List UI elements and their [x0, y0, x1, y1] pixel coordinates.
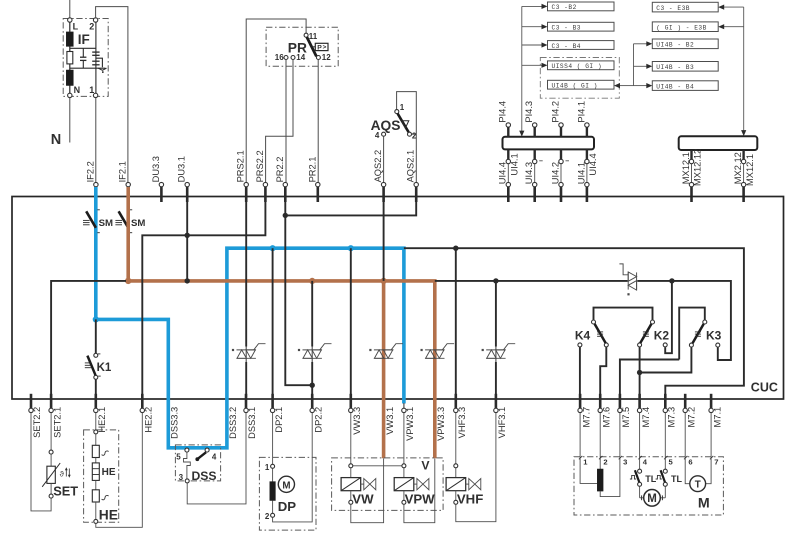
svg-text:PR2.2: PR2.2: [275, 157, 285, 183]
wire stub to UI4B - B4: [634, 83, 653, 88]
wire UI4B(GI) link: [614, 83, 634, 88]
wire feeder middle column: [633, 44, 635, 86]
DSS label: [192, 469, 217, 483]
wire IF internal bottom rail: [70, 67, 106, 69]
DSS pin 4: [205, 448, 217, 462]
svg-text:M7.3: M7.3: [667, 407, 677, 428]
wire mains L supply: [69, 0, 71, 18]
junction blue DP2.1: [270, 245, 276, 251]
triac on DP2.2 line: [298, 344, 332, 359]
wire neutral N below IF: [69, 98, 71, 143]
wire SET2.2 loop: [31, 413, 51, 511]
svg-text:UI4.4: UI4.4: [498, 162, 508, 184]
svg-text:IF2.2: IF2.2: [85, 161, 95, 182]
svg-text:SM: SM: [99, 218, 113, 229]
pin IF2.2: [85, 161, 98, 202]
svg-text:M7.5: M7.5: [621, 407, 631, 428]
reference box C3 - B4: [548, 41, 615, 50]
inductor coil L2 of IF: [66, 64, 73, 93]
junction brown VW3.1: [381, 278, 387, 284]
svg-text:UI4B - B4: UI4B - B4: [656, 83, 694, 90]
svg-text:7: 7: [714, 458, 718, 467]
motor winding coil: [597, 459, 603, 492]
wire K1 to HE2.1: [95, 379, 97, 397]
pin M7.4: [637, 394, 650, 428]
pin PR2.1: [307, 157, 320, 202]
svg-text:VPW: VPW: [405, 492, 436, 507]
wire stub to C3 - E3B: [718, 5, 744, 10]
AQS switch lever: [398, 114, 409, 133]
motor symbol M of DP: [278, 476, 294, 492]
wire M7 lead pin 2: [599, 413, 608, 467]
SET label: [53, 483, 78, 498]
svg-text:M7.7: M7.7: [581, 407, 591, 428]
IF pin 1: [89, 85, 98, 98]
triac in net B line: [619, 264, 636, 296]
svg-text:SET: SET: [53, 483, 78, 498]
pin DP2.2: [310, 394, 323, 433]
svg-text:2: 2: [412, 131, 417, 140]
wire VW-VPW link: [353, 465, 402, 467]
svg-text:C3 - B3: C3 - B3: [552, 25, 582, 32]
wire DP2.1 drop: [272, 248, 274, 397]
thermal switch TL right: [656, 459, 683, 487]
svg-text:VW: VW: [352, 492, 374, 507]
M label: [698, 496, 710, 512]
svg-text:C3 -B2: C3 -B2: [552, 4, 577, 11]
pin DSS3.2 label: [228, 407, 238, 439]
wire stub to UI4B - B2: [634, 41, 653, 46]
pin UI4.1 lower: [576, 149, 598, 184]
wire M7 lead pin 6: [684, 413, 693, 467]
svg-text:PI4.2: PI4.2: [550, 101, 560, 123]
pin DSS3.1: [244, 394, 257, 439]
pin VHF3.3: [454, 394, 467, 439]
DP pin 1: [265, 463, 275, 472]
svg-text:IF2.1: IF2.1: [118, 161, 128, 182]
wire IF right branch: [95, 22, 97, 93]
wire DP2.1 lead: [272, 413, 274, 465]
svg-text:16: 16: [275, 53, 284, 62]
AQS pin 1: [395, 103, 405, 113]
svg-text:DP2.2: DP2.2: [313, 407, 323, 433]
wire HE link 1: [95, 458, 97, 463]
wire VW return to VW3.1: [351, 458, 384, 522]
wire VHF3.3 drop: [455, 248, 457, 397]
pressure sensor symbol P>: [312, 43, 329, 51]
svg-text:MX12.12: MX12.12: [693, 149, 703, 186]
pin UI4.4 lower: [498, 149, 520, 184]
resistor R1 of IF: [67, 46, 73, 64]
svg-text:M: M: [282, 480, 290, 491]
svg-text:DU3.1: DU3.1: [177, 156, 187, 182]
svg-text:P: P: [317, 44, 322, 51]
svg-text:N: N: [51, 132, 61, 148]
pin UI4.3 CUC entry: [533, 182, 537, 202]
svg-text:K4: K4: [575, 328, 591, 342]
svg-text:>: >: [323, 44, 327, 51]
pin UI4.1 CUC entry: [585, 182, 589, 202]
wire VPW return to VPW3.3: [404, 458, 435, 522]
wire DU3.1 drop: [186, 197, 188, 281]
reference box C3 -B2: [548, 2, 615, 11]
heater element segment 2: [92, 490, 108, 502]
svg-text:VPW3.1: VPW3.1: [405, 407, 415, 441]
arrow into MX12 connector: [741, 130, 746, 136]
svg-text:UI4B - B3: UI4B - B3: [656, 64, 694, 71]
wire brown net IF2.1 to VPW3.3: [128, 187, 435, 458]
wire VHF3.3 lead: [455, 413, 457, 464]
svg-text:UI4.1: UI4.1: [576, 162, 586, 184]
inductor coil L1 of IF: [66, 22, 73, 46]
PR pin 12: [316, 53, 331, 62]
svg-text:4: 4: [212, 453, 217, 462]
svg-text:MX2.12: MX2.12: [733, 152, 743, 184]
svg-text:C3 - B4: C3 - B4: [552, 43, 582, 50]
svg-text:5: 5: [176, 453, 181, 462]
triac on DSS3.1 line: [232, 344, 266, 359]
svg-text:5: 5: [669, 458, 674, 467]
svg-text:V: V: [421, 459, 430, 473]
wire VW3.3 drop: [350, 248, 352, 397]
DSS program cam: [184, 452, 191, 479]
pin PI4.1: [576, 101, 589, 137]
motor unit M enclosure: [574, 457, 723, 515]
pin VW3.1 label: [385, 407, 395, 435]
wire stub to ( GI ) - E3B: [718, 24, 744, 29]
IF pin 2: [89, 18, 98, 32]
svg-text:PR2.1: PR2.1: [307, 157, 317, 183]
pin SET sensor bottom: [49, 494, 53, 498]
valve VHF: [446, 464, 483, 507]
svg-text:HE2.1: HE2.1: [97, 407, 107, 433]
connector PI4 body: [503, 137, 595, 150]
PR label: [288, 40, 307, 55]
reference box ( GI ) - E3B: [652, 22, 718, 32]
svg-text:VHF: VHF: [457, 492, 483, 507]
pin M7.3: [663, 394, 676, 428]
pin K3 left contact: [689, 343, 693, 347]
svg-text:CUC: CUC: [751, 380, 778, 394]
wire brown drop VW3.1: [382, 281, 386, 458]
pressure switch PR enclosure: [266, 27, 338, 66]
svg-text:PRS2.2: PRS2.2: [255, 150, 265, 182]
arrow into PI4 connector: [519, 131, 524, 137]
svg-text:DP: DP: [278, 499, 297, 514]
svg-text:VPW3.3: VPW3.3: [436, 407, 446, 441]
AQS paddle symbol: [402, 121, 409, 129]
svg-text:DP2.1: DP2.1: [274, 407, 284, 433]
svg-text:C3 - E3B: C3 - E3B: [656, 5, 690, 12]
pin VPW3.1: [402, 403, 415, 441]
wire AQS2.1 to PR2.2 link: [285, 197, 416, 215]
wire stub to UISS4: [522, 63, 548, 68]
valve group V enclosure: [332, 458, 444, 511]
pin HE bottom: [94, 519, 98, 523]
svg-text:VHF3.3: VHF3.3: [457, 407, 467, 439]
wire blue net IF2.2 to DSS3.3/DSS3.2 to VPW3.1: [96, 187, 404, 448]
junction DU3.1 neutral rail: [185, 233, 190, 238]
svg-text:HE: HE: [102, 467, 116, 478]
junction DU3.1 brown rail: [185, 278, 190, 283]
junction brown IF2.1: [125, 278, 131, 284]
heater element segment 1: [92, 445, 108, 457]
svg-text:UI4.3: UI4.3: [524, 162, 534, 184]
aqua sensor AQS bracket wire: [397, 92, 417, 183]
wire PRS2.2 to HE2.2: [142, 197, 265, 397]
svg-text:SET2.1: SET2.1: [52, 407, 62, 438]
wire K2 right pin riser: [665, 281, 672, 353]
wire VPW3.1 lead: [403, 413, 405, 464]
pin M7.7: [578, 394, 591, 428]
svg-text:DSS3.1: DSS3.1: [247, 407, 257, 439]
node N label: [51, 132, 61, 148]
pin HE2.2: [140, 394, 153, 433]
svg-text:K1: K1: [97, 362, 112, 374]
wire HE inner top: [95, 434, 97, 445]
svg-text:M7.6: M7.6: [601, 407, 611, 428]
wire blue corner to K1: [95, 319, 97, 353]
wire DP2.2 drop: [311, 281, 313, 397]
svg-text:PRS2.1: PRS2.1: [236, 150, 246, 182]
pin DU3.3: [151, 156, 164, 202]
pin SET sensor top: [49, 450, 53, 454]
wire SET2.1 lead: [50, 413, 52, 450]
reference box C3 - B3: [548, 22, 615, 31]
svg-text:DSS: DSS: [192, 469, 217, 483]
reference box UI4B - B3: [652, 62, 718, 72]
wire PR2.2 drop: [285, 197, 312, 385]
relay contact K2: [638, 320, 670, 347]
junction K2 riser: [669, 278, 674, 283]
wire net A black extension: [404, 248, 744, 397]
relay contact K1: [85, 353, 112, 379]
svg-text:K2: K2: [654, 328, 670, 342]
pin M7.1: [709, 394, 722, 428]
wire HE inner bottom: [95, 502, 97, 519]
pin SET2.2: [29, 394, 42, 438]
reference box UI4B - B4: [652, 81, 718, 91]
wire K2 node to K3 contact: [640, 347, 692, 372]
svg-text:M: M: [698, 496, 710, 512]
wire M7 lead pin 7: [710, 413, 719, 467]
pin M7.2: [683, 394, 696, 428]
interference filter IF enclosure: [63, 19, 108, 97]
junction AQS2.1 PR2.2: [283, 213, 288, 218]
wire K4 contact to M7.6: [600, 347, 606, 397]
tachometer T symbol: [685, 459, 711, 492]
pin AQS2.2: [373, 150, 386, 202]
svg-text:TL: TL: [645, 474, 656, 484]
capacitor C1 of IF: [80, 48, 86, 68]
wire stub to C3 - B4: [522, 42, 548, 47]
pin MX12.1 CUC entry: [689, 182, 693, 202]
pin M7.6: [598, 394, 611, 428]
wire PR pin14 to PRS2.2: [266, 60, 293, 183]
svg-text:3: 3: [179, 473, 184, 482]
reference box UI4B ( GI ): [548, 80, 615, 89]
heater HE enclosure: [84, 430, 119, 522]
wire VHF return to VHF3.1: [456, 413, 496, 522]
svg-text:UI4.1: UI4.1: [510, 153, 520, 175]
wire stub to C3 - B3: [522, 24, 548, 29]
temperature sensor SET body: [42, 454, 70, 494]
pin M7.5: [618, 394, 631, 428]
svg-text:M7.2: M7.2: [686, 407, 696, 428]
svg-text:M7.1: M7.1: [712, 407, 722, 428]
svg-text:PI4.3: PI4.3: [524, 101, 534, 123]
junction blue corner: [93, 316, 99, 322]
wire M coil to pin3: [600, 459, 620, 497]
svg-text:T: T: [695, 480, 701, 491]
wire net B black extension right: [637, 281, 731, 360]
pin PI4.4: [498, 101, 511, 137]
pin UI4.3 lower: [524, 149, 543, 184]
svg-text:6: 6: [688, 458, 692, 467]
svg-text:1: 1: [400, 103, 405, 112]
PR pin 11: [304, 32, 318, 41]
svg-text:2: 2: [89, 22, 94, 32]
wire feeder left column: [521, 6, 523, 133]
IF label: [78, 32, 90, 47]
svg-text:L: L: [73, 22, 79, 32]
pin IF2.1: [118, 161, 131, 202]
svg-text:VW3.3: VW3.3: [352, 407, 362, 435]
pin K2 right contact: [663, 343, 667, 347]
thermal switch TL left: [630, 459, 657, 487]
wire net B black extension left: [435, 280, 628, 282]
junction PR2.2 DP2.2: [310, 383, 315, 388]
svg-text:1: 1: [583, 458, 588, 467]
svg-text:DSS3.2: DSS3.2: [228, 407, 238, 439]
pin VPW3.3 label: [436, 407, 446, 441]
pin HE top: [94, 430, 98, 434]
svg-text:DU3.3: DU3.3: [151, 156, 161, 182]
door switch DSS enclosure: [175, 445, 220, 481]
wire IF pin1 to IF2.2: [95, 98, 97, 183]
connector MX12 body: [679, 136, 758, 150]
svg-text:2: 2: [265, 512, 270, 521]
ground chassis of IF: [96, 58, 107, 73]
junction brown DP2.2: [309, 278, 315, 284]
DSS pin 3: [179, 473, 190, 483]
svg-text:11: 11: [309, 32, 318, 41]
pin DU3.1: [177, 156, 190, 202]
triac on VPW3.3 line: [421, 344, 455, 359]
wire IF pin2 to IF2.1 over-route: [96, 7, 128, 183]
wire K2 contact to M7.4: [639, 347, 641, 397]
relay contact K3: [693, 320, 722, 343]
svg-text:HE: HE: [99, 508, 118, 523]
svg-text:M7.4: M7.4: [641, 407, 651, 428]
pin PI4.2: [550, 101, 563, 137]
wire HE link 2: [95, 480, 97, 489]
svg-text:HE2.2: HE2.2: [144, 407, 154, 433]
wire PRS2.1 riser to PR pin 11: [246, 19, 306, 182]
svg-text:SM: SM: [131, 218, 145, 229]
svg-text:TL: TL: [671, 474, 682, 484]
switch SM on brown wire: [115, 210, 145, 233]
pin K3 right contact: [716, 343, 720, 347]
pin DSS3.3 label: [170, 407, 180, 439]
svg-text:12: 12: [322, 53, 331, 62]
wire DP2.2 return: [273, 413, 313, 522]
wire arch K3: [679, 308, 705, 360]
wire IF internal top rail: [70, 47, 96, 49]
junction K2 contact node: [637, 370, 642, 375]
svg-text:4: 4: [375, 131, 380, 140]
pin PR2.2: [275, 157, 288, 202]
IF pin N: [68, 85, 80, 98]
CUC label: [751, 380, 778, 394]
svg-text:VW3.1: VW3.1: [385, 407, 395, 435]
wire stub to UI4B - B3: [634, 64, 653, 69]
pump winding coil DP: [270, 469, 276, 514]
svg-text:AQS2.2: AQS2.2: [373, 150, 383, 183]
wire stub to C3 -B2: [522, 4, 548, 9]
reference box UISS4 ( GI ): [548, 61, 615, 70]
wire AQS2.2 drop: [383, 197, 385, 281]
wire PRS2.1 to DSS3.1: [245, 197, 247, 397]
pin UI4.2 CUC entry: [559, 182, 563, 202]
controller CUC box: [12, 197, 784, 400]
svg-text:MX12.1: MX12.1: [745, 154, 755, 186]
AQS pin 2: [408, 131, 417, 140]
svg-text:UI4.4: UI4.4: [588, 153, 598, 175]
wire feeder right column: [743, 7, 745, 133]
valve VPW: [394, 464, 435, 507]
svg-text:UI4B ( GI ): UI4B ( GI ): [552, 83, 598, 90]
pin AQS2.1: [406, 150, 419, 202]
wire VW3.3 lead: [350, 413, 352, 464]
wire M7 lead pin 4: [638, 413, 647, 467]
DP pin 2: [265, 512, 275, 521]
svg-text:DSS3.3: DSS3.3: [170, 407, 180, 439]
junction blue VW3.3: [348, 245, 354, 251]
svg-text:AQS2.1: AQS2.1: [406, 150, 416, 183]
pin VHF3.1: [494, 394, 507, 439]
wire M pin1 branch: [580, 459, 597, 484]
svg-text:PI4.4: PI4.4: [498, 101, 508, 123]
pin SET2.1: [49, 394, 62, 438]
svg-text:UI4.2: UI4.2: [550, 162, 560, 184]
pin MX2.12 CUC entry: [741, 182, 745, 202]
svg-text:N: N: [74, 85, 81, 95]
svg-text:PI4.1: PI4.1: [576, 101, 586, 123]
wire PR pin16 to PR2.2: [285, 60, 287, 183]
drain pump DP enclosure: [259, 457, 316, 530]
DSS lever: [195, 452, 206, 461]
svg-text:2: 2: [603, 458, 607, 467]
reference box UI4B - B2: [652, 39, 718, 49]
reference box C3 - E3B: [652, 2, 718, 12]
pin UI4.4 CUC entry: [506, 182, 510, 202]
svg-text:1: 1: [89, 85, 94, 95]
IF pin L: [68, 18, 79, 32]
svg-text:ϑ: ϑ: [60, 470, 65, 479]
pin HE2.1: [94, 394, 107, 433]
pin PRS2.2: [255, 150, 268, 202]
dashed group box UISS4/UI4B: [540, 58, 619, 99]
wire K4 left contact to M7.7: [579, 347, 581, 397]
wire HE return to HE2.2: [96, 413, 143, 528]
AQS pin 4: [375, 131, 386, 140]
svg-text:MX12.1: MX12.1: [681, 152, 691, 184]
pin DP2.1: [270, 394, 283, 433]
wire M7 lead pin 5: [664, 413, 673, 467]
triac on VHF3.1 line: [482, 344, 516, 359]
HE label: [99, 508, 118, 523]
